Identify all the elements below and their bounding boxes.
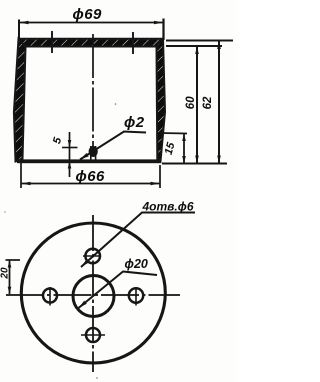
bottom hole [86, 328, 100, 342]
svg-text:62: 62 [202, 96, 214, 109]
scan speckles [115, 103, 117, 105]
ext line bottom right [162, 163, 227, 165]
top rim band (section hatch) [19, 39, 163, 47]
tick left on rim [51, 31, 53, 53]
tick right on rim [132, 32, 134, 54]
right wall (section hatch) [157, 39, 166, 162]
dim 60 [196, 46, 198, 164]
ext line 62 top [166, 40, 233, 42]
dim 5 [69, 132, 71, 177]
hole Ф2 in bottom [89, 146, 98, 157]
leader 4 holes Ф6 [81, 213, 195, 268]
left hole [43, 289, 57, 303]
dimension line Ф69 [19, 22, 164, 24]
leader Ф20 [79, 272, 158, 309]
centerline top view [92, 34, 94, 147]
svg-text:ɸ69: ɸ69 [73, 6, 103, 23]
dim line Ф66 [21, 183, 160, 185]
svg-text:20: 20 [0, 267, 11, 280]
horizontal centerline bottom view [6, 294, 180, 296]
ext line left of Ф69 [18, 20, 20, 41]
svg-text:60: 60 [185, 96, 197, 109]
big circle (bottom view) [21, 223, 165, 363]
ext line right of Ф69 [162, 19, 164, 41]
ext left Ф66 [20, 163, 22, 188]
svg-text:ɸ2: ɸ2 [124, 114, 145, 131]
vertical centerline bottom view [92, 215, 94, 372]
dim 15 [160, 132, 187, 135]
svg-text:4отв.ɸ6: 4отв.ɸ6 [142, 200, 194, 214]
dim 62 [218, 41, 220, 164]
left wall (section hatch) [14, 39, 26, 162]
top hole [85, 249, 100, 264]
svg-text:ɸ20: ɸ20 [125, 257, 148, 271]
dim 20 [9, 260, 11, 294]
right hole [129, 288, 143, 302]
ext right Ф66 [159, 165, 161, 188]
leader Ф2 [80, 132, 146, 160]
center hole Ф20 [73, 276, 114, 317]
ext line 60 top [166, 45, 222, 47]
svg-text:ɸ66: ɸ66 [76, 168, 106, 185]
bottom of cup [17, 159, 161, 163]
